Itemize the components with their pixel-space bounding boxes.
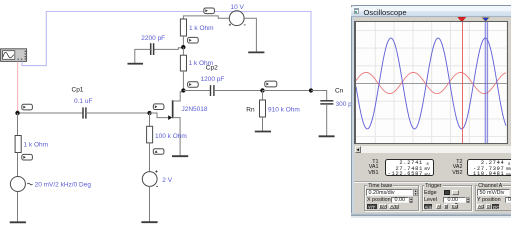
wire R2 to node A <box>182 36 184 47</box>
AC source V1 <box>10 177 32 192</box>
svg-text:1 k Ohm: 1 k Ohm <box>189 25 214 32</box>
Edge row <box>424 190 437 196</box>
ground (Rn) <box>255 131 271 133</box>
wire Cp1 to gate node <box>86 112 150 114</box>
oscilloscope instrument icon XSC1 <box>1 49 27 62</box>
svg-text:910 k Ohm: 910 k Ohm <box>268 106 300 113</box>
title text <box>364 8 407 17</box>
wire node A to R4 <box>182 47 184 55</box>
node D junction (drain) <box>181 88 185 92</box>
capacitor Cn 300 pF <box>320 101 333 104</box>
resistor R4 1 k Ohm (lower) <box>180 55 186 71</box>
wire V3 to ground <box>244 18 256 52</box>
wire R1 to source V1 <box>17 153 19 177</box>
wire Cp2 to node Rn <box>214 90 263 92</box>
wire drain to node D <box>173 91 184 101</box>
AC 0 DC buttons <box>477 204 484 209</box>
readout box 1 <box>385 159 434 177</box>
wire input node to Cp1 <box>18 112 84 114</box>
wire output node to Cn <box>311 91 327 101</box>
svg-text:1 k Ohm: 1 k Ohm <box>24 142 49 149</box>
wire Cn to ground <box>326 104 328 136</box>
ground (V2) <box>141 221 157 223</box>
wire R3 to source V2 <box>149 143 151 172</box>
resistor R1 1 k Ohm (left) <box>15 136 21 153</box>
wire input node to R1 <box>17 113 19 136</box>
net label marker (top rail) <box>204 8 215 14</box>
readout box 2 <box>467 159 511 177</box>
window bottom border <box>351 213 511 218</box>
resistor R3 100 k Ohm <box>147 126 153 143</box>
wire V2 to ground <box>149 186 151 221</box>
title bar icon <box>354 8 359 14</box>
svg-text:J2N5018: J2N5018 <box>182 106 208 113</box>
Y position row <box>477 197 501 203</box>
svg-text:20 mV/2 kHz/0 Deg: 20 mV/2 kHz/0 Deg <box>35 182 92 189</box>
wire node Rn to output node <box>263 90 312 92</box>
net label marker (R1 bottom) <box>22 154 33 160</box>
net label marker (input) <box>22 104 33 110</box>
window left border <box>351 5 354 218</box>
oscilloscope window <box>351 5 511 218</box>
ground (V3) <box>248 51 264 53</box>
group box Trigger <box>422 185 473 211</box>
wire gate lead <box>150 113 169 118</box>
svg-text:Rn: Rn <box>246 106 255 113</box>
display bezel <box>354 21 508 145</box>
node Rn junction <box>260 88 264 92</box>
resistor Rn 910 k Ohm <box>260 100 266 117</box>
cursor flag 1 (red) <box>455 17 495 23</box>
capacitor Cp2 <box>211 85 214 96</box>
group box Time base <box>364 185 420 211</box>
node gate junction <box>147 111 151 115</box>
display screen with grid, traces and cursors <box>356 22 507 143</box>
wire node A to C1 <box>154 48 184 50</box>
wire Rn lead <box>262 91 264 101</box>
svg-text:1200 pF: 1200 pF <box>201 76 225 83</box>
ground (JFET source) <box>172 155 188 157</box>
svg-text:Cn: Cn <box>335 88 344 95</box>
net label marker (drain node) <box>188 82 199 88</box>
resistor R2 1 k Ohm (top) <box>180 19 186 36</box>
svg-text:Cp2: Cp2 <box>206 65 218 72</box>
separator groove <box>354 181 511 183</box>
svg-text:10 V: 10 V <box>231 4 245 11</box>
wire Rn to ground <box>262 117 264 131</box>
wire C1 to ground <box>135 49 151 63</box>
wire source to ground <box>173 118 181 156</box>
svg-text:2200 pF: 2200 pF <box>141 35 165 42</box>
node A junction <box>181 45 185 49</box>
title bar <box>351 5 511 17</box>
X position row <box>367 197 391 203</box>
ground (C1) <box>128 63 144 65</box>
svg-text:0.1 uF: 0.1 uF <box>74 98 92 105</box>
ground (Cn) <box>319 135 335 137</box>
wire gate node to R3 <box>149 113 151 127</box>
wire scope channel B (blue) <box>22 12 311 91</box>
ground (V1) <box>10 221 26 223</box>
svg-text:300 p: 300 p <box>336 101 353 108</box>
transistor Q1 JFET <box>168 100 173 120</box>
node input junction <box>15 111 19 115</box>
svg-text:Cp1: Cp1 <box>72 87 84 94</box>
wire scope channel A (red) <box>17 62 19 114</box>
Level row <box>424 197 437 203</box>
wire node D to Cp2 <box>183 90 210 92</box>
Y/T B/A A/B buttons <box>367 204 377 209</box>
DC source V3 10V <box>229 11 246 26</box>
trigger buttons <box>424 204 433 209</box>
wire top rail (R2 top to V3) <box>183 16 229 19</box>
wire V1 to ground <box>17 192 19 222</box>
scrollbar track <box>361 146 511 153</box>
readout labels T1 VA1 VB1 <box>356 160 379 177</box>
net label marker (gate) <box>153 104 164 110</box>
scrollbar left button <box>355 146 362 153</box>
net label marker (output net) <box>265 81 277 87</box>
group box Channel A <box>475 185 511 211</box>
node output junction <box>309 88 313 92</box>
net label marker (R2 bottom) <box>188 37 199 43</box>
channel A scale field <box>477 189 510 196</box>
net label marker (R3 bottom) <box>153 149 164 155</box>
timebase scale field <box>366 189 414 196</box>
capacitor Cp1 <box>83 107 86 118</box>
DC source V2 <box>142 170 158 186</box>
readout labels T2 VA2 VB2 <box>440 160 463 177</box>
svg-text:2 V: 2 V <box>162 177 172 184</box>
svg-text:100 k Ohm: 100 k Ohm <box>155 133 187 140</box>
wire R4 to node D <box>182 71 184 91</box>
capacitor C1 2200 pF <box>151 43 154 55</box>
